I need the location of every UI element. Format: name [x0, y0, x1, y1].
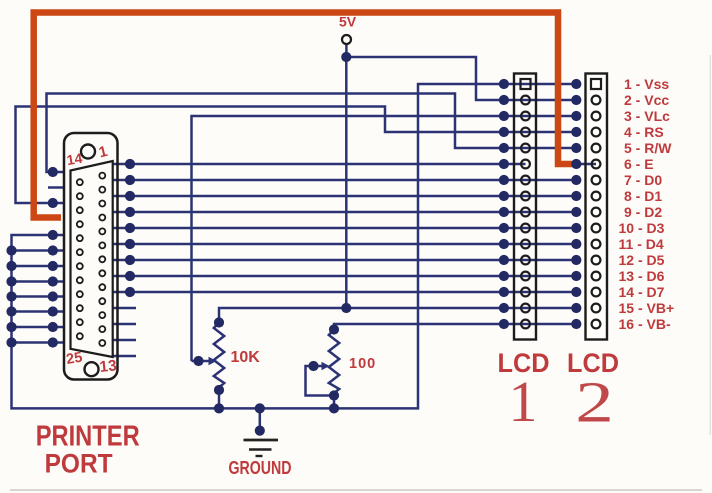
svg-text:10 - D3: 10 - D3: [619, 220, 665, 236]
label: LCD number 2: [575, 370, 614, 435]
svg-text:16 - VB-: 16 - VB-: [619, 316, 671, 332]
svg-text:1 - Vss: 1 - Vss: [624, 76, 669, 92]
junction dots: 10K terminals and wiper: [193, 317, 224, 413]
junction dot: 5V rail meets VB+ row: [341, 303, 351, 313]
wire: DB25 pin20 ground spur: [12, 265, 65, 268]
wire: D6 net row 13: [113, 275, 577, 278]
wire: 5V feed to LCD Vcc net (row 2): [346, 57, 576, 100]
junction dots: DB25 right side pins 1-9: [125, 159, 135, 297]
svg-text:14: 14: [65, 150, 83, 168]
junction dots: ground stem: [255, 403, 265, 435]
svg-text:13: 13: [99, 357, 118, 376]
svg-text:14 - D7: 14 - D7: [619, 284, 665, 300]
scan artifact: right edge line: [709, 55, 711, 435]
svg-text:3 - VLc: 3 - VLc: [624, 108, 670, 124]
LCD2 pin 1 square pad: [591, 79, 601, 89]
svg-text:6 - E: 6 - E: [624, 156, 654, 172]
svg-text:8 - D1: 8 - D1: [624, 188, 662, 204]
wiper arrow of 10K: [209, 357, 217, 365]
junction dot: 5V node: [341, 52, 351, 62]
wire: DB25 pin21 ground spur: [12, 280, 65, 283]
junction dots: 100 terminals and wiper: [308, 324, 339, 413]
svg-text:GROUND: GROUND: [229, 458, 292, 478]
svg-text:5 - R/W: 5 - R/W: [624, 140, 672, 156]
connector J1 DB25 inner D-face: [71, 161, 113, 357]
svg-text:2 - Vcc: 2 - Vcc: [624, 92, 669, 108]
svg-text:4 - RS: 4 - RS: [624, 124, 664, 140]
LCD1 pins 2-16 round pads: [521, 96, 530, 329]
wire: 10K wiper lead: [192, 360, 210, 363]
wire: D4 net row 11: [113, 243, 577, 246]
DB25 pin holes column pins 14-25: [77, 179, 83, 339]
svg-text:2: 2: [575, 370, 614, 435]
scan artifact: bottom edge line: [10, 489, 702, 491]
svg-text:15 - VB+: 15 - VB+: [619, 300, 675, 316]
wire: DB25 pin22 ground spur: [12, 295, 65, 298]
svg-text:5V: 5V: [339, 14, 357, 30]
svg-text:11 - D4: 11 - D4: [619, 236, 664, 252]
wire: D0 net row 7: [113, 179, 577, 182]
svg-text:100: 100: [349, 356, 376, 372]
wire: DB25 pin24 ground spur: [12, 326, 65, 329]
junction dots: LCD2 feed column: [571, 79, 581, 329]
LCD2 pins 2-16 round pads: [592, 96, 601, 329]
wire: orange E2 jumper from DB25 pin17 to LCD2 pin6: [34, 13, 573, 218]
wire: VLc net row 3 from 10K wiper riser: [192, 116, 577, 361]
junction dots: DB25 left side pins: [48, 167, 58, 348]
wire: 5V terminal stem: [345, 44, 348, 53]
svg-text:9 - D2: 9 - D2: [624, 204, 662, 220]
wire: DB25 pin15 stub (unconnected): [48, 186, 65, 189]
wire: DB25 pin1 Strobe to LCD1 E (row 6): [113, 163, 526, 166]
connector J1 DB25 printer port outer shell: [64, 133, 118, 380]
wire: DB25 pin12 stub: [113, 339, 136, 342]
svg-text:7 - D0: 7 - D0: [624, 172, 662, 188]
wire: DB25 pin11 stub: [113, 323, 136, 326]
wire: DB25 pin25 ground spur: [12, 341, 65, 344]
DB25 pin holes column pins 1-13: [99, 173, 105, 346]
wire: 5V vertical rail down to VB+ row: [345, 57, 348, 308]
LCD1 pin 1 square pad: [521, 79, 531, 89]
wire: VB+ net row 15 from 10K top: [219, 308, 576, 323]
wire: ground stem: [259, 408, 262, 432]
wire: D2 net row 9: [113, 211, 577, 214]
wire: DB25 pin23 ground spur: [12, 310, 65, 313]
wire: DB25 pin13 stub: [113, 355, 136, 358]
svg-text:PORT: PORT: [45, 449, 113, 479]
wire: DB25 pin14 to LCD R/W net (row 5): [47, 94, 577, 173]
resistor 10K potentiometer body: [214, 323, 224, 391]
wire: D7 net row 14: [113, 291, 577, 294]
wire: DB25 pin16 to LCD RS net (row 4): [16, 107, 577, 204]
connector LCD2 header shell: [586, 74, 608, 340]
svg-text:1: 1: [509, 369, 538, 434]
ground symbol: [244, 440, 279, 456]
wire: ground bus (DB25 pins 18-25 to ground rail to LCD pin1 Vss riser): [12, 84, 577, 408]
junction dots: LCD1 feed column: [499, 79, 509, 329]
wire: DB25 pin19 ground spur: [12, 249, 65, 252]
resistor 100 potentiometer body: [329, 330, 339, 396]
svg-text:13 - D6: 13 - D6: [619, 268, 665, 284]
wire: D5 net row 12: [113, 259, 577, 262]
svg-text:12 - D5: 12 - D5: [619, 252, 665, 268]
svg-text:10K: 10K: [231, 349, 261, 366]
wire: D1 net row 8: [113, 195, 577, 198]
wiper arrow of 100: [322, 362, 330, 370]
junction dots: left ground bus: [6, 245, 16, 347]
DB25 mounting hole top: [81, 145, 95, 159]
wire: 100 bottom to ground bus: [333, 396, 336, 409]
wire: LCD2 E from orange jumper dot to pin: [576, 163, 596, 166]
wire: VB- net row 16 from 100 top: [334, 324, 576, 330]
5V supply terminal: [342, 35, 351, 44]
svg-text:25: 25: [65, 350, 83, 368]
wire: 10K bottom to ground bus: [218, 390, 221, 408]
wire: DB25 pin10 stub: [113, 307, 136, 310]
wire: 100 wiper lead and loop to bottom terminal: [306, 366, 335, 396]
connector LCD1 header shell: [514, 74, 536, 340]
wire: D3 net row 10: [113, 227, 577, 230]
DB25 mounting hole bottom: [85, 362, 99, 376]
